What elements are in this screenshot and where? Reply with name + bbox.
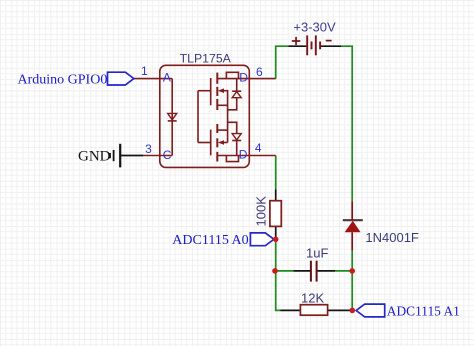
svg-text:100K: 100K: [254, 196, 269, 227]
svg-text:4: 4: [255, 141, 262, 155]
svg-text:ADC1115 A0: ADC1115 A0: [172, 233, 248, 248]
svg-text:1uF: 1uF: [306, 245, 328, 260]
svg-text:3: 3: [145, 142, 152, 156]
svg-text:Arduino GPIO0: Arduino GPIO0: [18, 72, 108, 87]
svg-text:ADC1115 A1: ADC1115 A1: [387, 303, 460, 318]
svg-text:12K: 12K: [301, 290, 324, 305]
svg-text:C: C: [163, 148, 172, 162]
svg-text:1N4001F: 1N4001F: [365, 230, 419, 245]
svg-text:D: D: [239, 148, 248, 162]
svg-text:TLP175A: TLP175A: [180, 51, 232, 65]
svg-text:A: A: [163, 70, 171, 84]
svg-text:GND: GND: [78, 148, 111, 164]
svg-text:+3-30V: +3-30V: [293, 20, 336, 35]
svg-text:6: 6: [256, 65, 263, 79]
svg-text:1: 1: [141, 64, 148, 78]
svg-text:D: D: [239, 71, 248, 85]
